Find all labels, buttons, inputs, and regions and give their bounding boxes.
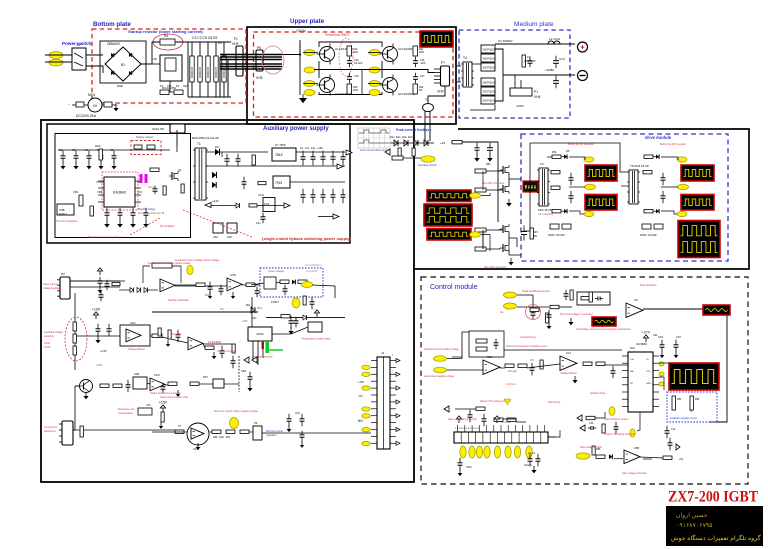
cm left mid wire [455, 408, 476, 410]
p3 out wires 2 [70, 286, 120, 288]
J1 oval p1 [362, 365, 370, 369]
gate scope oval upper [470, 193, 481, 199]
svg-text:voltage feedback: voltage feedback [43, 287, 62, 290]
snubber R19 [347, 46, 352, 56]
J1 oval p3 [362, 386, 370, 390]
aux bottom gnd 2 [117, 220, 123, 228]
svg-text:(C1D): (C1D) [44, 346, 51, 349]
connector J1 board edge [377, 357, 390, 449]
drive transformer T5 [627, 170, 640, 204]
extra gnd row4 [159, 422, 163, 429]
voltage follower box [120, 325, 150, 346]
row2 output long wire [152, 311, 258, 313]
shunt block [510, 88, 532, 96]
T1 leads down [424, 111, 426, 141]
cap bank left drop [187, 42, 189, 97]
interstage resistor [530, 228, 533, 239]
svg-text:regulation: regulation [266, 434, 277, 437]
row4 R38 [175, 430, 184, 433]
bottom header X1 [454, 432, 548, 443]
drive module box [521, 134, 728, 261]
gate driver stage B junction [508, 233, 510, 244]
aux input cap 3 [87, 151, 92, 163]
svg-text:Out 3: Out 3 [148, 186, 155, 189]
cm cap t1 [531, 309, 536, 319]
upper red ellipse highlight [339, 38, 353, 76]
extra gnd row4b [300, 441, 304, 448]
svg-text:Current compare: Current compare [217, 350, 236, 353]
aux out cap top 4 [331, 151, 336, 165]
row3 wire [147, 383, 150, 384]
flyback inner outline [55, 134, 191, 238]
svg-text:T1: T1 [197, 142, 201, 146]
op-amp U5 error amp [626, 303, 643, 317]
cm C14 [588, 426, 596, 430]
green probe mark [266, 342, 269, 353]
fan motor MO1 [88, 98, 102, 112]
interstage wire [509, 246, 521, 255]
transistor Q5 [80, 380, 93, 393]
relay series resistor 2 [174, 90, 183, 95]
PWM controller U1 KA3843 [104, 177, 135, 207]
cd4 below wire c [262, 341, 264, 358]
svg-text:feedback regulator circuit: feedback regulator circuit [670, 417, 697, 420]
svg-text:30CPQ150: 30CPQ150 [483, 57, 496, 61]
svg-text:گروه تلگرام تعمیرات دستگاه جوش: گروه تلگرام تعمیرات دستگاه جوش [671, 534, 761, 542]
drive out B1 wire [653, 156, 656, 158]
cm feedback box [577, 292, 610, 305]
gate driver stage A transistor bottom [500, 184, 509, 194]
svg-text:Given current: Given current [43, 283, 58, 286]
cm cap C34 [660, 340, 665, 352]
sampling red dashed ellipse [65, 317, 87, 361]
U10 input network [447, 369, 483, 371]
gate waveform scope upper [427, 190, 471, 202]
header cap c [458, 458, 463, 470]
drive zener pair a [550, 224, 559, 229]
J1 right arrows [396, 359, 400, 363]
svg-text:CD4x: CD4x [256, 332, 264, 336]
cd4 below wire b [257, 341, 259, 365]
svg-text:The list of regulators: The list of regulators [56, 220, 78, 223]
gate oval g2 b [369, 67, 380, 73]
svg-text:Standby voltage: Standby voltage [138, 208, 156, 211]
cm R54 [690, 396, 693, 410]
svg-text:18V8x 1N4148: 18V8x 1N4148 [548, 234, 565, 237]
zener ZD1 [251, 307, 255, 313]
svg-text:Bottom plate: Bottom plate [93, 21, 131, 28]
svg-text:+5 +15 -15: +5 +15 -15 [500, 422, 511, 424]
J1 oval p2 [362, 372, 370, 376]
follower R out [152, 334, 162, 337]
cm R below uc [602, 424, 605, 433]
header oval 8 [526, 446, 532, 458]
svg-text:Preside the operating voltage: Preside the operating voltage [88, 235, 122, 239]
cm right small arrow [676, 444, 680, 450]
svg-text:CS+: CS+ [630, 359, 635, 361]
T1 leads down 2 [429, 111, 431, 141]
aux out cap top 2 [311, 151, 316, 165]
bottom header pins up [457, 425, 459, 432]
gate waveform scope lower [427, 229, 471, 241]
cd4 area long wire [266, 317, 345, 319]
cm u5 out wire [643, 308, 727, 310]
drive board outline [413, 129, 749, 269]
svg-text:25A600V: 25A600V [107, 42, 121, 46]
svg-text:M: M [93, 103, 96, 108]
drive damp R a [551, 171, 560, 174]
svg-text:C37: C37 [676, 335, 681, 339]
drive scope A bottom [585, 195, 617, 211]
fan ground [113, 104, 118, 111]
cm loop cap [494, 339, 499, 349]
drive rail drop [497, 142, 499, 222]
cm uc out wire right [659, 362, 669, 364]
regulator 7915 [273, 176, 290, 188]
svg-text:+SMBJ: +SMBJ [545, 68, 555, 72]
secondary diode D5b [212, 182, 216, 188]
svg-text:overload timing: overload timing [520, 336, 536, 339]
UC3846 pins [622, 355, 628, 357]
svg-text:450WV47: 450WV47 [190, 66, 194, 78]
row4 chain wire2 [84, 429, 175, 431]
vs wire [276, 282, 280, 283]
svg-text:+27V: +27V [642, 330, 651, 334]
ctrl cap a2 [99, 291, 104, 301]
aux output arrow +5V [333, 214, 339, 219]
bridge rectifier enclosure [100, 41, 146, 83]
svg-text:X2A1 9P: X2A1 9P [152, 127, 164, 131]
svg-text:X02: X02 [183, 84, 188, 88]
aux Rsnub [181, 184, 184, 193]
sampling vcc [92, 307, 101, 319]
q5 gnd [83, 392, 88, 399]
svg-text:KA3843: KA3843 [113, 190, 126, 194]
svg-text:D1x D2x D3x D4x: D1x D2x D3x D4x [390, 135, 413, 139]
row4 R39 [212, 430, 221, 433]
drive wire A bot [569, 211, 584, 214]
upper plate inner wiring frame [299, 42, 301, 95]
svg-text:R5x: R5x [486, 162, 491, 166]
temperature switch block [308, 322, 322, 332]
svg-text:Take voltage pendant: Take voltage pendant [580, 446, 602, 449]
row4 R40 [226, 430, 235, 433]
svg-text:(C2b): (C2b) [44, 342, 50, 345]
feedback loop resistor [152, 263, 172, 268]
ctrl gnd i [247, 384, 252, 391]
svg-text:Feedback voltage: Feedback voltage [44, 331, 64, 334]
drive cap b [569, 191, 574, 203]
drive out B1 gate resistor [644, 155, 653, 158]
sampling R c [73, 346, 76, 355]
opamp chain wire [175, 285, 196, 287]
gate driver stage A transistor top [500, 165, 509, 175]
gate driver stage A base wires 2 [486, 189, 500, 190]
ctrl cap a [98, 277, 103, 287]
aux bottom cap 4 [144, 208, 149, 220]
svg-text:W02: W02 [419, 51, 425, 54]
svg-text:PH8: PH8 [117, 84, 123, 88]
svg-text:Auxiliary power supply: Auxiliary power supply [263, 126, 329, 132]
cap bank bottom bus [188, 96, 231, 98]
bundle drop 1 [219, 57, 221, 97]
red dashed pointer line [183, 210, 252, 237]
svg-text:1=4.1(Ps): 1=4.1(Ps) [208, 340, 221, 344]
relay contact leads [152, 63, 160, 65]
drive rail wire [462, 141, 498, 143]
svg-text:30CPQ150: 30CPQ150 [483, 81, 496, 85]
svg-text:R39 R40 R41: R39 R40 R41 [213, 436, 231, 439]
svg-text:U1D: U1D [154, 373, 160, 377]
svg-text:SD2: SD2 [241, 369, 247, 373]
shunt wire 2 [520, 80, 522, 88]
svg-text:C1 450WV: C1 450WV [498, 39, 513, 43]
svg-text:P6: P6 [257, 46, 261, 50]
bundle wire 6 [220, 68, 282, 70]
cm oval wire a [452, 356, 462, 358]
gate oval g3 a [304, 81, 315, 87]
bundle wire 2 [220, 56, 282, 58]
drive scope B bottom [681, 195, 714, 211]
svg-text:Control module: Control module [430, 284, 478, 291]
optocoupler U3B [57, 204, 74, 215]
regulator 7815 [272, 148, 296, 161]
snubber C17 [413, 57, 418, 68]
svg-text:U7B: U7B [230, 273, 236, 277]
drive oval A mid [585, 184, 596, 190]
vs oval [302, 282, 313, 288]
row4 oval [230, 418, 239, 429]
extra cap row1 b [255, 287, 260, 297]
svg-text:C1 C3: C1 C3 [528, 452, 535, 455]
svg-text:feedback current positive volt: feedback current positive voltage [424, 348, 460, 351]
cm R55 [586, 416, 595, 419]
J1 oval p8 [362, 428, 370, 432]
bottom header vcc a [456, 416, 461, 423]
transformer T1 primary circle [423, 104, 434, 112]
power switch S1 [72, 48, 86, 70]
driver stage stub D [482, 230, 484, 249]
svg-text:sampling: sampling [44, 335, 54, 338]
cm big scope [669, 363, 719, 390]
row4 chain wire4 [209, 431, 212, 433]
sampling cap a [96, 324, 101, 336]
auxiliary supply board outline [47, 124, 350, 243]
fan wire 2 [84, 104, 88, 106]
feedback top wire [390, 142, 434, 144]
startup R inside a [134, 145, 142, 149]
row1 long wire a [70, 280, 125, 282]
feedback loop wire [143, 266, 150, 283]
svg-text:ZX7-200 IGBT: ZX7-200 IGBT [668, 489, 759, 506]
svg-text:(104.2): (104.2) [524, 464, 532, 467]
ctrl cap b [105, 280, 110, 290]
cm R70 [550, 305, 559, 308]
drive module link wire [547, 156, 552, 158]
drive scope B top [681, 165, 714, 181]
op-amp U15 with circle [187, 423, 209, 445]
svg-text:P1: P1 [160, 84, 164, 88]
aux input cap gnd 1 [60, 162, 65, 169]
aux R sense [163, 186, 166, 195]
timing diagram grid [358, 128, 390, 148]
svg-text:2W: 2W [533, 234, 537, 238]
rect output mid [503, 74, 575, 76]
svg-text:Overvoltage and overcurrent pr: Overvoltage and overcurrent protection c… [576, 328, 631, 331]
arrow diode pair [244, 357, 249, 363]
aux output arrow +15V [346, 150, 352, 155]
PWM IC UC3846 [628, 352, 653, 412]
drive out A1 gate resistor [552, 155, 561, 158]
cm cap t2 [564, 290, 569, 300]
drive big scope [678, 221, 720, 258]
startup red dashed box [131, 141, 161, 155]
svg-text:C15: C15 [295, 411, 300, 415]
uc right oval 2 [659, 372, 664, 376]
feedback diode row [394, 140, 398, 146]
aux bottom cap 2 [118, 208, 123, 220]
ctrl vert R near oval [303, 296, 306, 305]
cm fb box C [595, 297, 603, 301]
cm wire below uc [637, 412, 640, 431]
connector F1 VHF [236, 46, 243, 76]
drive wire B top [661, 157, 678, 160]
output C snubber [528, 57, 533, 67]
cm wire bl [614, 458, 623, 460]
fan resistor left [76, 102, 84, 107]
aux out cap bot 4 [331, 189, 336, 203]
drive out B1 clamp diode [656, 155, 659, 159]
rect stack bus right [495, 49, 503, 101]
drive out A2 gate resistor [552, 210, 561, 213]
upper plate gate waveform scope [420, 31, 453, 47]
bridge diode 3 [111, 71, 114, 75]
credit black box [666, 506, 763, 546]
op-amp U6B [624, 450, 640, 464]
row4 vcc [159, 400, 168, 412]
drive transformer T3 [537, 168, 550, 206]
q5 left wire [75, 385, 79, 387]
sec cap 2 [236, 154, 241, 166]
gate driver stage B base resistor bottom [475, 247, 486, 251]
bottom plate box [92, 29, 246, 103]
svg-text:EA-: EA- [630, 370, 634, 373]
aux input connector X2A1 [170, 124, 185, 133]
svg-text:Valve=0.5/amp present: Valve=0.5/amp present [604, 418, 629, 421]
gate driver stage B base resistor top [475, 228, 486, 232]
svg-text:+2.5V: +2.5V [100, 349, 107, 353]
cm u6b out [643, 458, 652, 460]
flyback MOSFET Q1 [169, 171, 178, 181]
shunt wires [514, 75, 516, 88]
sampling R a [73, 322, 76, 331]
header cap a [528, 454, 533, 466]
aux out rail 3 [318, 216, 333, 218]
svg-text:Output short red parts chips: Output short red parts chips [160, 396, 189, 399]
gate driver stage A base resistor bottom [475, 188, 486, 192]
svg-text:T1: T1 [425, 98, 429, 102]
gate oval g1 b [304, 67, 315, 73]
output terminal positive [578, 42, 588, 52]
follower wire [162, 337, 188, 343]
svg-text:(single-ended flyback switchin: (single-ended flyback switching power su… [262, 236, 351, 241]
sec R5Z [258, 182, 266, 185]
vs cap [283, 285, 288, 295]
svg-text:Voltage follower: Voltage follower [560, 372, 577, 375]
opamp chain wire2 [205, 285, 227, 287]
driver B ground [508, 258, 513, 265]
aux R2A resistor [99, 149, 102, 160]
svg-text:PRG: PRG [257, 308, 262, 310]
gate scope oval lower [470, 232, 481, 238]
svg-text:30CPQ150: 30CPQ150 [483, 90, 496, 94]
cm R mid a [505, 364, 514, 367]
q5 R d [190, 382, 199, 385]
extra rv row2 [158, 328, 161, 336]
cm cap mid [530, 363, 535, 375]
aux mid vertical wire [176, 146, 178, 152]
row2 sampling to follower [76, 335, 120, 337]
row4 chain wire3 [184, 431, 187, 433]
svg-text:VH4: VH4 [534, 95, 541, 99]
cm vcc 27 [642, 330, 651, 342]
svg-text:Overcurrent protection compari: Overcurrent protection comparison input [506, 345, 547, 348]
ctrl R col a [168, 330, 171, 339]
svg-text:compensation: compensation [118, 412, 134, 415]
cm u5 down wire [709, 309, 727, 422]
svg-text:T4: T4 [463, 56, 467, 60]
cm cap below uc [614, 422, 619, 434]
aux input cap 2 [74, 151, 79, 163]
svg-text:RC oscillation: RC oscillation [160, 225, 175, 228]
wire P7 down [428, 86, 445, 104]
svg-text:Output 1.75 testing protection: Output 1.75 testing protection [604, 433, 636, 436]
svg-text:timer current drive input: timer current drive input [360, 148, 388, 152]
snubber C18 [413, 73, 418, 84]
upper plate ground [299, 94, 307, 103]
row1 diode wire b [148, 289, 158, 291]
svg-text:W02: W02 [353, 51, 359, 54]
cm A5R vert [546, 313, 549, 323]
connector P7 VH5 [441, 66, 450, 86]
ctrl cap f [176, 330, 181, 342]
fan branch diode D1 [236, 203, 240, 208]
svg-text:drive module: drive module [645, 135, 672, 140]
cm left arrow sym [444, 406, 449, 412]
header oval 4 [484, 446, 490, 458]
row1 to blue box [251, 283, 264, 285]
svg-text:+15V: +15V [358, 380, 364, 384]
svg-text:DC24V0.2KA: DC24V0.2KA [76, 114, 97, 118]
svg-text:UC3846: UC3846 [636, 342, 647, 346]
ctrl cap i [248, 372, 253, 384]
svg-text:S1: S1 [76, 43, 80, 47]
op-amp U7B [227, 278, 242, 291]
svg-text:7815: 7815 [275, 153, 283, 157]
cd4 D14 diode [303, 315, 307, 320]
green horizontal stub [269, 349, 283, 351]
svg-text:Feedback current voltage posit: Feedback current voltage positive voltag… [148, 262, 191, 265]
svg-text:R54: R54 [695, 398, 700, 401]
svg-text:P3: P3 [61, 272, 65, 276]
ctrl oval 2 [292, 298, 300, 308]
aux out rail mid [290, 181, 345, 183]
q5 R b [113, 384, 122, 387]
gate driver stage B base wires 2 [486, 248, 500, 249]
fan branch wire [211, 205, 236, 207]
svg-text:۰۹۱۶۸۷۰۶۷۹۵: ۰۹۱۶۸۷۰۶۷۹۵ [676, 522, 713, 529]
cm sine scope small [592, 317, 616, 326]
